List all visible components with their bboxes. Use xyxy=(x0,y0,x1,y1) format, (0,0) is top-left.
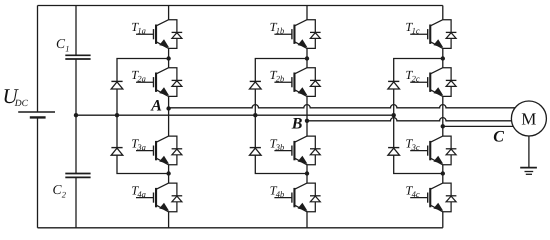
transistor T4c (IGBT with antiparallel diode) xyxy=(410,183,456,212)
svg-text:2c: 2c xyxy=(412,73,420,83)
node: T3b-T4b junction xyxy=(305,171,309,175)
diode D5a (upper clamp) xyxy=(111,81,123,89)
node: T3a-T4a junction xyxy=(166,171,170,175)
label T4a xyxy=(131,183,146,198)
motor M xyxy=(511,101,546,136)
transistor T2c (IGBT with antiparallel diode) xyxy=(410,68,456,97)
node C xyxy=(441,124,445,128)
ground xyxy=(520,168,537,175)
node: capacitor midpoint xyxy=(74,113,78,117)
svg-text:1b: 1b xyxy=(276,25,285,35)
label T4c xyxy=(405,183,419,198)
svg-text:1: 1 xyxy=(65,44,69,54)
wire: DC-link bus middle section xyxy=(75,59,77,173)
label T2b xyxy=(270,68,285,83)
wire: phase c leg xyxy=(442,6,444,228)
node A xyxy=(166,106,170,110)
transistor T1b (IGBT with antiparallel diode) xyxy=(274,20,320,49)
wire: clamp branch b xyxy=(255,59,307,174)
svg-text:4a: 4a xyxy=(137,189,146,199)
transistor T4a (IGBT with antiparallel diode) xyxy=(136,183,182,212)
label T1b xyxy=(270,20,285,35)
wire: clamp branch a xyxy=(117,59,169,174)
svg-text:C: C xyxy=(493,129,504,146)
svg-text:B: B xyxy=(291,115,303,132)
transistor T3a (IGBT with antiparallel diode) xyxy=(136,136,182,165)
transistor T1a (IGBT with antiparallel diode) xyxy=(136,20,182,49)
wire: battery positive lead xyxy=(37,6,39,112)
wire: phase C output line xyxy=(443,125,514,127)
node: clamp-bus junction b xyxy=(253,113,257,117)
svg-text:A: A xyxy=(150,98,162,115)
node: clamp-bus junction c xyxy=(392,113,396,117)
wire: neutral-point bus xyxy=(76,114,394,116)
label T2a xyxy=(131,68,146,83)
svg-text:1a: 1a xyxy=(137,25,146,35)
transistor T3b (IGBT with antiparallel diode) xyxy=(274,136,320,165)
transistor T2a (IGBT with antiparallel diode) xyxy=(136,68,182,97)
transistor T2b (IGBT with antiparallel diode) xyxy=(274,68,320,97)
label T3b xyxy=(270,136,285,151)
node: T3c-T4c junction xyxy=(441,171,445,175)
diode D5c (upper clamp) xyxy=(388,81,400,89)
label T2c xyxy=(405,68,419,83)
label T4b xyxy=(270,183,285,198)
node: clamp-bus junction a xyxy=(115,113,119,117)
svg-text:2: 2 xyxy=(62,190,67,200)
wire: phase B output line xyxy=(307,118,512,121)
battery source U_DC xyxy=(18,112,55,117)
wire: phase b leg xyxy=(306,6,308,228)
svg-text:1c: 1c xyxy=(412,25,420,35)
svg-text:3b: 3b xyxy=(275,142,285,152)
label U_DC xyxy=(3,84,29,109)
wire: DC-link bus upper section xyxy=(75,6,77,56)
svg-text:3c: 3c xyxy=(411,142,420,152)
svg-text:3a: 3a xyxy=(136,142,146,152)
diode D6b (lower clamp) xyxy=(250,148,262,156)
label C2 xyxy=(53,182,67,199)
svg-text:2a: 2a xyxy=(137,73,146,83)
wire: phase a leg xyxy=(168,6,170,228)
node B xyxy=(305,119,309,123)
label T3c xyxy=(405,136,419,151)
svg-text:2b: 2b xyxy=(276,73,285,83)
diode D6c (lower clamp) xyxy=(388,148,400,156)
wire: battery negative lead xyxy=(37,117,39,227)
wire: motor star-point lead xyxy=(528,136,530,168)
transistor T3c (IGBT with antiparallel diode) xyxy=(410,136,456,165)
label T1c xyxy=(405,20,419,35)
node: T1a-T2a junction xyxy=(166,56,170,60)
svg-text:4c: 4c xyxy=(412,189,420,199)
wire: DC-link bus lower section xyxy=(75,177,77,227)
wire: phase A output line xyxy=(169,105,516,108)
capacitor C1 xyxy=(65,55,90,59)
node: T1c-T2c junction xyxy=(441,56,445,60)
diode D5b (upper clamp) xyxy=(250,81,262,89)
svg-text:4b: 4b xyxy=(276,189,285,199)
wire: clamp branch c xyxy=(394,59,443,174)
transistor T4b (IGBT with antiparallel diode) xyxy=(274,183,320,212)
capacitor C2 xyxy=(65,174,90,178)
wire: positive DC rail (top) xyxy=(38,5,443,7)
wire: negative DC rail (bottom) xyxy=(38,227,443,229)
diode D6a (lower clamp) xyxy=(111,148,123,156)
label T3a xyxy=(131,136,146,151)
node: T1b-T2b junction xyxy=(305,56,309,60)
label C1 xyxy=(56,36,69,53)
svg-text:M: M xyxy=(521,110,536,129)
svg-text:DC: DC xyxy=(14,99,29,109)
transistor T1c (IGBT with antiparallel diode) xyxy=(410,20,456,49)
label T1a xyxy=(131,20,146,35)
